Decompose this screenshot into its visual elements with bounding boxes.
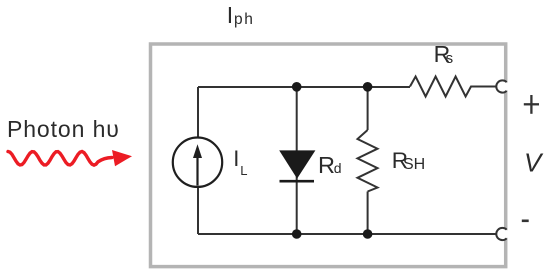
label RSH: [392, 148, 425, 173]
terminal bottom (-): [496, 228, 508, 240]
photon wavy arrow: [8, 150, 132, 166]
svg-text:I: I: [233, 146, 239, 171]
svg-text:Photon hυ: Photon hυ: [7, 116, 120, 142]
junction node bottom-right: [363, 229, 373, 239]
diode branch wire: [296, 87, 298, 234]
label Iph: [227, 2, 255, 28]
plus sign: [524, 95, 539, 114]
junction node top-right: [363, 82, 373, 92]
minus sign: [522, 220, 529, 223]
label Rd: [318, 152, 342, 178]
resistor Rs: [410, 77, 496, 97]
junction node top-left: [292, 82, 302, 92]
svg-text:d: d: [334, 160, 342, 176]
top wire: [198, 86, 410, 88]
outer cell box: [151, 44, 506, 267]
svg-text:SH: SH: [403, 156, 425, 173]
resistor RSH: [358, 130, 378, 192]
label Rs: [434, 41, 454, 67]
svg-text:V: V: [524, 148, 544, 178]
shunt branch wires: [367, 87, 369, 130]
svg-text:I: I: [227, 2, 233, 28]
junction node bottom-left: [292, 229, 302, 239]
left branch wires: [197, 87, 199, 139]
svg-text:ph: ph: [234, 11, 254, 28]
svg-text:R: R: [318, 152, 335, 178]
current source IL: [173, 138, 222, 187]
label IL: [233, 146, 247, 178]
terminal top (+): [496, 80, 508, 92]
diode Rd: [279, 150, 315, 181]
svg-text:L: L: [240, 163, 247, 178]
svg-text:s: s: [446, 50, 454, 67]
bottom wire: [198, 233, 496, 235]
